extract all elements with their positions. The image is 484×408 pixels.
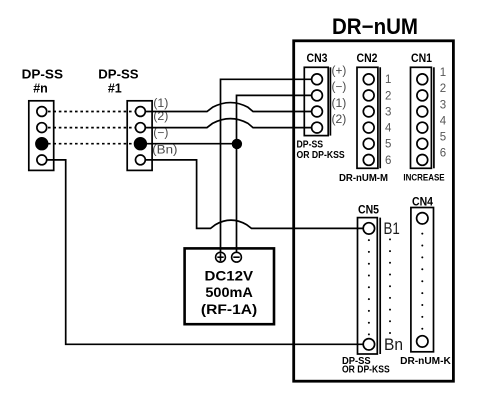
wire (+): CN3 pin (+) down to DC12V plus terminal: [221, 79, 312, 252]
svg-text:DP-SS: DP-SS: [22, 67, 64, 82]
pin 1 of CN2: [363, 74, 374, 85]
pin (-) of DP-SS #n: [36, 138, 48, 150]
pin (-) of DP-SS #1: [134, 138, 146, 150]
terminal + of DC12V: [216, 252, 226, 262]
svg-text:(2): (2): [332, 114, 347, 126]
pin 3 of CN2: [363, 106, 374, 117]
enclosure DR-nUM box: [294, 41, 454, 381]
svg-text:(2): (2): [153, 111, 168, 123]
svg-text:2: 2: [385, 90, 391, 102]
pin numbers CN2: [385, 74, 392, 167]
svg-text:500mA: 500mA: [205, 285, 253, 300]
pin 4 of CN2: [363, 122, 374, 133]
svg-text:2: 2: [440, 83, 446, 95]
connector CN1: [411, 67, 434, 168]
svg-text:#1: #1: [108, 82, 122, 96]
svg-text:DP-SS: DP-SS: [98, 67, 139, 82]
wire dashed bus row (1): [48, 111, 135, 113]
pin 2 of CN1: [417, 90, 428, 101]
dotted continuation B1 to Bn: [389, 238, 391, 334]
pin B1 of CN4: [417, 213, 428, 224]
power supply DC12V box: [185, 248, 274, 324]
connector CN2: [357, 67, 380, 168]
svg-text:CN1: CN1: [411, 53, 433, 65]
svg-text:DR-nUM-K: DR-nUM-K: [400, 356, 451, 367]
svg-text:1: 1: [385, 74, 391, 86]
pin (1) of DP-SS #1: [136, 107, 146, 117]
pin (2) of CN3: [312, 122, 323, 133]
dotted continuation inside CN4: [421, 233, 423, 330]
svg-text:#n: #n: [33, 82, 48, 96]
caption CN5: DP-SS OR DP-KSS: [342, 356, 390, 376]
wire (-) vertical: CN3 pin (-) down to DC12V minus terminal: [237, 95, 312, 252]
wire row (-) DP-SS #1 to junction: [147, 143, 237, 145]
pin 6 of CN2: [363, 155, 374, 166]
svg-text:4: 4: [440, 115, 447, 127]
connector CN5: [358, 218, 381, 354]
svg-text:(1): (1): [332, 98, 347, 110]
pin (2) of DP-SS #1: [136, 123, 146, 133]
junction dot on (-) net: [232, 139, 242, 149]
svg-text:3: 3: [440, 99, 446, 111]
pin Bn of CN5: [363, 339, 374, 350]
pin Bn of CN4: [417, 336, 428, 347]
svg-text:6: 6: [440, 148, 446, 160]
wire (Bn) of DP-SS #n to CN5 pin Bn: [47, 160, 364, 344]
pin (1) of DP-SS #n: [37, 107, 47, 117]
svg-text:DR−nUM: DR−nUM: [332, 14, 418, 39]
svg-text:(1): (1): [153, 98, 168, 110]
connector CN3: [304, 67, 330, 135]
wire (Bn) of DP-SS #1 to CN5 pin B1 with hop: [145, 160, 363, 229]
label DP-SS #n: [22, 67, 64, 96]
pin (2) of DP-SS #n: [37, 123, 47, 133]
dotted continuation inside CN5: [368, 239, 370, 335]
svg-text:DP-SS: DP-SS: [297, 139, 324, 150]
connector DP-SS #1: [127, 101, 152, 171]
wire dashed bus row (2): [48, 127, 135, 129]
pin 5 of CN1: [417, 138, 428, 149]
svg-text:CN2: CN2: [357, 53, 378, 65]
svg-text:6: 6: [385, 155, 391, 167]
label DP-SS #1: [98, 67, 139, 96]
svg-text:(−): (−): [332, 82, 347, 94]
pin (Bn) of DP-SS #n: [37, 155, 47, 165]
svg-text:(RF-1A): (RF-1A): [201, 302, 257, 317]
pin (Bn) of DP-SS #1: [136, 155, 146, 165]
pin (1) of CN3: [312, 106, 323, 117]
pin 1 of CN1: [417, 74, 428, 85]
pin (-) of CN3: [312, 90, 323, 101]
wire row (2) DP-SS #1 to CN3 pin (2) with hop: [145, 119, 311, 128]
svg-text:CN5: CN5: [358, 205, 380, 217]
pin 3 of CN1: [417, 106, 428, 117]
svg-text:(+): (+): [332, 66, 347, 78]
svg-text:(Bn): (Bn): [152, 144, 177, 156]
terminal - of DC12V: [232, 252, 242, 262]
wire dashed bus row (-): [48, 143, 135, 145]
svg-text:(−): (−): [153, 128, 168, 140]
caption CN3: DP-SS OR DP-KSS: [297, 139, 345, 161]
connector DP-SS #n: [29, 101, 54, 171]
svg-text:Bn: Bn: [384, 335, 403, 354]
value label DC12V 500mA (RF-1A): [201, 269, 257, 317]
svg-text:5: 5: [385, 139, 391, 151]
pin B1 of CN5: [363, 223, 374, 234]
wire row (1) DP-SS #1 to CN3 pin (1) with hop: [145, 103, 311, 112]
connector CN4: [411, 208, 434, 352]
svg-text:CN3: CN3: [307, 53, 328, 65]
svg-text:DR-nUM-M: DR-nUM-M: [339, 172, 388, 184]
pin 6 of CN1: [417, 155, 428, 166]
svg-text:INCREASE: INCREASE: [403, 173, 444, 184]
svg-text:OR DP-KSS: OR DP-KSS: [297, 150, 345, 161]
svg-text:1: 1: [440, 67, 446, 79]
svg-text:B1: B1: [384, 219, 400, 238]
pin numbers CN1: [440, 67, 447, 160]
pin 5 of CN2: [363, 138, 374, 149]
svg-text:DC12V: DC12V: [205, 269, 254, 284]
svg-text:5: 5: [440, 132, 446, 144]
pin 4 of CN1: [417, 122, 428, 133]
svg-text:4: 4: [385, 123, 392, 135]
pin 2 of CN2: [363, 90, 374, 101]
svg-text:3: 3: [385, 106, 391, 118]
pin (+) of CN3: [312, 74, 323, 85]
svg-text:OR DP-KSS: OR DP-KSS: [342, 365, 390, 376]
